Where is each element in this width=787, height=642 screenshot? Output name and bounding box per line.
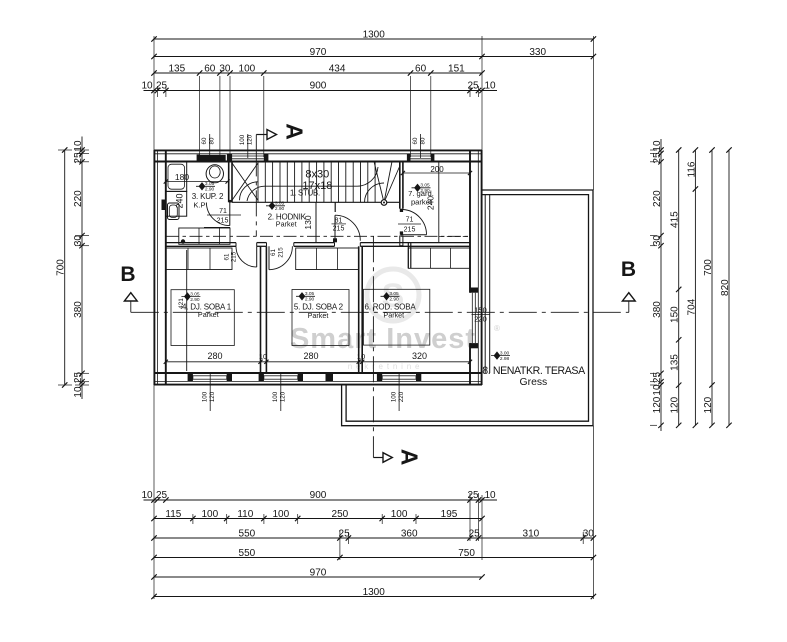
svg-text:220: 220 xyxy=(73,190,84,207)
window dim room3 xyxy=(398,374,400,411)
gard internal dim 200 xyxy=(403,172,470,174)
svg-text:Gress: Gress xyxy=(520,377,548,388)
svg-text:135: 135 xyxy=(168,63,185,74)
window dim top W1 xyxy=(209,134,211,158)
svg-text:550: 550 xyxy=(239,528,256,539)
svg-text:30: 30 xyxy=(219,63,231,74)
wardrobe room1 xyxy=(166,248,232,270)
left extension bars xyxy=(58,149,72,151)
partition wall room1/room2 xyxy=(260,246,262,373)
svg-text:30: 30 xyxy=(73,235,84,247)
svg-text:280: 280 xyxy=(303,351,318,361)
window W2 top (stair 100) xyxy=(227,154,269,162)
outer wall right xyxy=(481,150,483,385)
outer wall bottom xyxy=(154,384,482,386)
gard west wall pier lower xyxy=(400,236,403,246)
window W1 top (bathroom) xyxy=(200,156,220,159)
svg-text:220: 220 xyxy=(652,190,663,207)
svg-text:120: 120 xyxy=(280,391,287,402)
svg-text:100: 100 xyxy=(239,63,256,74)
svg-text:10: 10 xyxy=(484,490,496,501)
terrace west double line xyxy=(484,195,486,373)
svg-text:550: 550 xyxy=(239,548,256,559)
svg-text:195: 195 xyxy=(441,509,458,520)
svg-text:434: 434 xyxy=(329,63,346,74)
svg-text:115: 115 xyxy=(165,509,181,520)
svg-text:25: 25 xyxy=(156,490,168,501)
window bottom room2 xyxy=(259,373,264,381)
svg-text:200: 200 xyxy=(430,165,444,174)
stair left winder arc xyxy=(240,182,259,201)
window dim top W3 xyxy=(420,134,422,158)
svg-text:10: 10 xyxy=(357,352,365,361)
window right wall (rod soba) xyxy=(470,288,478,349)
bathtub / shower cell xyxy=(166,162,187,191)
dim right 820 xyxy=(728,150,730,425)
partition wall room2/room3 xyxy=(358,246,360,373)
stair left winder diagonals xyxy=(232,163,258,200)
dim bottom 10/25/900/25/10 xyxy=(144,499,498,501)
svg-text:704: 704 xyxy=(686,298,697,315)
bathroom sink xyxy=(168,203,180,220)
svg-text:360: 360 xyxy=(401,528,418,539)
svg-text:970: 970 xyxy=(310,47,327,58)
svg-text:215: 215 xyxy=(404,227,416,234)
elevation marker gard xyxy=(414,184,421,192)
svg-text:Parket: Parket xyxy=(276,220,297,229)
dim top 10/25/900/25/10 xyxy=(144,90,498,92)
svg-text:135: 135 xyxy=(670,354,681,371)
door D1 room1 61/215 xyxy=(256,246,258,267)
svg-text:61: 61 xyxy=(224,253,231,260)
svg-text:K.P: K.P xyxy=(193,200,205,209)
stair newel post xyxy=(381,200,387,206)
bed room3 xyxy=(364,289,430,345)
room width dims xyxy=(166,361,470,363)
svg-text:2.98: 2.98 xyxy=(500,356,510,362)
svg-text:Parket: Parket xyxy=(383,311,404,320)
svg-text:215: 215 xyxy=(277,247,284,258)
svg-text:A: A xyxy=(397,449,423,466)
door D4 gard 71/215 xyxy=(401,234,427,236)
svg-text:30: 30 xyxy=(652,235,663,247)
svg-text:61: 61 xyxy=(270,249,277,256)
svg-text:380: 380 xyxy=(652,301,663,318)
svg-text:30: 30 xyxy=(583,528,595,539)
svg-text:3.05: 3.05 xyxy=(305,291,315,297)
svg-text:3.05: 3.05 xyxy=(190,291,200,297)
svg-text:80: 80 xyxy=(209,137,216,144)
window W3 top (gard 60) xyxy=(407,154,435,162)
dim left chain 10/25/220/30/380/25/10 xyxy=(81,137,83,400)
stair south edge xyxy=(232,201,400,203)
stair right winder arc xyxy=(365,183,385,203)
svg-text:10: 10 xyxy=(652,384,663,396)
dim left 700 xyxy=(64,150,66,385)
room1 dim line 421 xyxy=(186,250,188,371)
svg-text:10: 10 xyxy=(484,81,496,92)
svg-text:3.05: 3.05 xyxy=(420,183,430,189)
svg-text:310: 310 xyxy=(523,528,540,539)
svg-text:8x30: 8x30 xyxy=(305,169,329,181)
svg-text:1300: 1300 xyxy=(363,29,386,40)
elevation marker room3 xyxy=(383,292,390,300)
svg-text:220: 220 xyxy=(398,391,405,402)
extension lines top xyxy=(153,36,155,150)
gard dashed line xyxy=(439,236,470,238)
svg-text:A: A xyxy=(282,123,308,140)
dim right 700/120 xyxy=(711,150,713,425)
section marker A bottom xyxy=(372,449,374,458)
window dim top W2 xyxy=(247,134,249,158)
svg-text:B: B xyxy=(120,263,135,286)
stair treads xyxy=(258,162,375,203)
rod soba wardrobe side wall xyxy=(407,242,409,268)
svg-text:2.90: 2.90 xyxy=(205,187,215,193)
watermark logo S ring xyxy=(367,269,419,321)
svg-text:700: 700 xyxy=(703,259,714,276)
svg-text:820: 820 xyxy=(720,279,731,296)
door D2 room2 61/215 xyxy=(268,246,270,269)
outer wall top xyxy=(154,149,482,151)
svg-text:120: 120 xyxy=(703,396,714,413)
wall jambs at doors xyxy=(235,243,237,247)
svg-text:100: 100 xyxy=(272,391,279,402)
svg-text:970: 970 xyxy=(310,567,327,578)
svg-text:120: 120 xyxy=(247,134,254,145)
stair walking line xyxy=(247,186,357,201)
dim right 116/704 xyxy=(694,150,696,425)
section line A-A vertical top xyxy=(255,135,257,151)
elevation marker corridor xyxy=(269,202,276,210)
bathroom 180 dim xyxy=(166,181,228,183)
window dim room2 xyxy=(280,374,282,411)
door D3 rod soba 81/215 xyxy=(334,215,336,241)
svg-text:100: 100 xyxy=(391,509,408,520)
dim bottom 550/750 xyxy=(154,557,593,559)
dim bottom 970 xyxy=(154,576,482,578)
svg-text:120: 120 xyxy=(652,396,663,413)
svg-text:320: 320 xyxy=(412,351,427,361)
terrace outer boundary xyxy=(342,190,593,426)
svg-text:151: 151 xyxy=(448,63,465,74)
svg-text:100: 100 xyxy=(201,509,218,520)
window bottom room1 xyxy=(188,373,193,381)
bathroom vanity row xyxy=(179,228,230,244)
svg-text:10: 10 xyxy=(73,386,84,398)
svg-text:60: 60 xyxy=(415,63,427,74)
black pier / cistern xyxy=(198,155,226,162)
dim top 970/330 xyxy=(154,56,593,58)
window dim room1 xyxy=(209,374,211,411)
svg-text:71: 71 xyxy=(219,208,227,215)
terrace inner boundary xyxy=(346,195,588,422)
svg-text:330: 330 xyxy=(529,47,546,58)
svg-text:116: 116 xyxy=(686,161,697,177)
svg-text:900: 900 xyxy=(310,490,327,501)
elevation marker terrace xyxy=(494,351,501,359)
svg-text:3.05: 3.05 xyxy=(205,181,215,187)
stair right winder diagonals xyxy=(374,162,384,203)
black pier left of W1 xyxy=(197,155,200,162)
svg-text:10: 10 xyxy=(141,81,153,92)
svg-text:71: 71 xyxy=(406,217,414,224)
section marker A top xyxy=(256,134,267,136)
svg-text:Parket: Parket xyxy=(198,310,219,319)
dim top 1300 xyxy=(154,38,593,40)
svg-text:80: 80 xyxy=(419,137,426,144)
svg-text:60: 60 xyxy=(412,137,419,144)
door D5 bathroom 71/215 xyxy=(229,202,231,225)
dim top chain 135/60/30/100/434/60/151 xyxy=(154,72,482,74)
extension lines bottom xyxy=(153,385,155,599)
svg-text:Parket: Parket xyxy=(308,311,329,320)
bed room2 xyxy=(292,290,349,346)
left wall pier dark patch xyxy=(162,200,166,211)
svg-text:215: 215 xyxy=(333,226,345,233)
interior wall A lower face xyxy=(166,245,236,247)
dim bottom 1300 xyxy=(154,596,593,598)
svg-text:240: 240 xyxy=(426,196,436,210)
svg-text:®: ® xyxy=(494,324,500,333)
svg-text:700: 700 xyxy=(56,259,67,276)
svg-text:100: 100 xyxy=(272,509,289,520)
dim right chain 10/25/220/30/380/25/10/120 xyxy=(660,139,662,431)
svg-text:25: 25 xyxy=(467,490,479,501)
svg-text:8. NENATKR. TERASA: 8. NENATKR. TERASA xyxy=(482,365,586,377)
corridor east line x316 xyxy=(315,202,317,242)
svg-text:180: 180 xyxy=(175,172,189,182)
svg-text:150: 150 xyxy=(670,306,681,323)
svg-text:110: 110 xyxy=(237,509,253,520)
svg-text:250: 250 xyxy=(332,509,349,520)
dim bottom 550/25/360/25/310/30 xyxy=(154,537,593,539)
elevation marker room2 xyxy=(299,292,306,300)
section line jog y243 xyxy=(166,235,470,237)
svg-text:100: 100 xyxy=(391,391,398,402)
svg-text:81: 81 xyxy=(335,217,343,224)
svg-text:100: 100 xyxy=(239,134,246,145)
svg-text:415: 415 xyxy=(670,211,681,228)
svg-text:3.00: 3.00 xyxy=(500,350,510,356)
wardrobe room2 xyxy=(296,248,359,270)
dim bottom chain 115/100/110/100/250/100/195 xyxy=(154,518,482,520)
section line A-A vertical bottom xyxy=(372,236,374,449)
svg-text:B: B xyxy=(621,258,636,281)
svg-text:240: 240 xyxy=(175,193,185,208)
svg-text:10: 10 xyxy=(141,490,153,501)
svg-text:130: 130 xyxy=(303,215,313,229)
svg-text:1300: 1300 xyxy=(363,587,386,598)
svg-text:3.05: 3.05 xyxy=(389,291,399,297)
svg-text:10: 10 xyxy=(259,352,267,361)
svg-text:2.90: 2.90 xyxy=(275,206,285,212)
svg-text:900: 900 xyxy=(310,81,327,92)
svg-text:215: 215 xyxy=(217,218,229,225)
section line B-B xyxy=(131,311,629,313)
svg-text:60: 60 xyxy=(204,63,216,74)
black pier bottom wall xyxy=(326,374,334,382)
gard west wall xyxy=(399,162,401,209)
svg-text:60: 60 xyxy=(201,137,208,144)
svg-text:380: 380 xyxy=(73,301,84,318)
svg-text:25: 25 xyxy=(467,81,479,92)
svg-text:280: 280 xyxy=(207,351,222,361)
elevation marker bathroom xyxy=(199,182,206,190)
svg-text:750: 750 xyxy=(458,548,475,559)
interior wall A upper face xyxy=(166,242,236,244)
outer wall left xyxy=(153,150,155,385)
wardrobe room3 xyxy=(408,248,470,268)
stair west / bathroom east wall xyxy=(228,162,230,203)
svg-text:3.05: 3.05 xyxy=(275,201,285,207)
right extension bars xyxy=(650,149,657,151)
toilet xyxy=(206,165,223,183)
washer cell below tub xyxy=(166,191,187,216)
gard closet line xyxy=(438,162,440,243)
bed room1 xyxy=(171,290,234,346)
terrace door window room3 xyxy=(377,373,382,381)
dim right 415/150/135/120 xyxy=(678,150,680,425)
svg-text:120: 120 xyxy=(670,396,681,413)
svg-text:120: 120 xyxy=(209,391,216,402)
elevation marker room1 xyxy=(184,292,191,300)
bathroom south wall piece xyxy=(204,227,230,229)
svg-text:1. STUB.: 1. STUB. xyxy=(290,188,320,197)
svg-text:100: 100 xyxy=(202,391,209,402)
